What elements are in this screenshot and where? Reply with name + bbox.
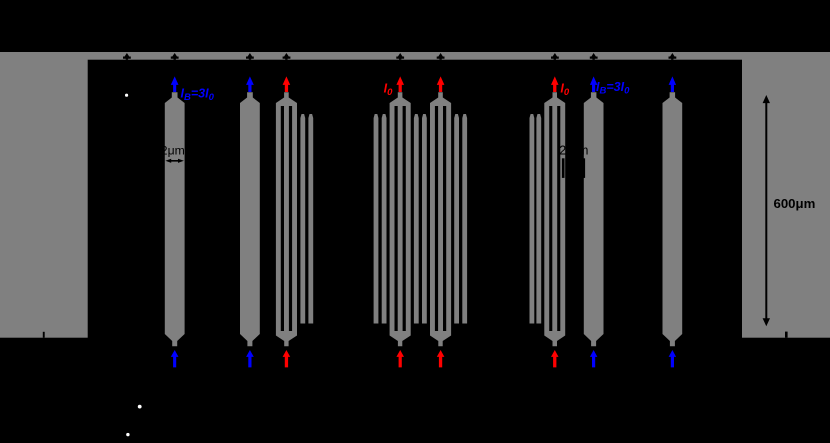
comb electrode E6 finger 1 (544, 106, 549, 331)
current arrow top E2 (blue) (246, 76, 254, 92)
top bus bar (0, 52, 830, 60)
current arrow top E8 (blue) (669, 76, 677, 92)
svg-text:2μm: 2μm (559, 143, 590, 157)
marker dot 3 (126, 433, 129, 436)
floating wire F3 (374, 114, 379, 324)
current arrow bottom E3 (red) (283, 350, 291, 367)
comb electrode E3 finger 2 (284, 106, 289, 331)
comb electrode E4 bottom cap (390, 331, 411, 346)
floating wire F6 (422, 114, 427, 324)
bus feed arrow 3 (246, 53, 254, 60)
current arrow bottom E8 (blue) (669, 350, 677, 367)
current arrow bottom E7 (blue) (590, 350, 598, 367)
svg-text:2μm: 2μm (161, 143, 185, 157)
dimension tick left (E6-E7 gap) (562, 158, 565, 178)
comb electrode E3 finger 3 (292, 106, 297, 331)
right pad bottom tick (785, 332, 788, 338)
floating wire F8 (462, 114, 467, 324)
comb electrode E4 finger 3 (406, 106, 411, 331)
comb electrode E6 finger 3 (560, 106, 565, 331)
comb electrode E5 bottom cap (430, 331, 451, 346)
floating wire F1 (300, 114, 305, 324)
floating wire F7 (454, 114, 459, 324)
dimension tick right (E6-E7 gap) (583, 158, 585, 178)
comb electrode E4 finger 2 (398, 106, 403, 331)
comb electrode E3 bottom cap (276, 331, 297, 346)
comb electrode E4 top cap (390, 92, 411, 106)
bus feed arrow 9 (669, 53, 677, 60)
marker dot 1 (125, 94, 128, 97)
comb electrode E6 top cap (544, 92, 565, 106)
current arrow bottom E2 (blue) (246, 350, 254, 367)
floating wire F9 (530, 114, 535, 324)
comb electrode E5 finger 1 (430, 106, 435, 331)
current arrow bottom E5 (red) (437, 350, 445, 367)
electrode E8 (2um wire) (663, 92, 683, 346)
bus feed arrow 8 (590, 53, 598, 60)
bus feed arrow 7 (551, 53, 559, 60)
current arrow top E7 (blue) (590, 76, 598, 92)
vertical dimension arrow 600um (763, 95, 770, 326)
electrode E1 (2um wire) (165, 92, 185, 346)
current arrow top E4 (red) (396, 76, 404, 92)
comb electrode E6 bottom cap (544, 331, 565, 346)
floating wire F10 (536, 114, 541, 324)
electrode E2 (2um wire) (240, 92, 260, 346)
bus feed arrow 1 (123, 53, 131, 60)
bus feed arrow 5 (396, 53, 404, 60)
floating wire F2 (308, 114, 313, 324)
current arrow top E3 (red) (283, 76, 291, 92)
comb electrode E5 top cap (430, 92, 451, 106)
comb electrode E6 finger 2 (552, 106, 557, 331)
left contact pad (0, 52, 88, 338)
right contact pad (742, 52, 830, 338)
current arrow bottom E1 (blue) (171, 350, 179, 367)
bus feed arrow 2 (171, 53, 179, 60)
bus feed arrow 6 (437, 53, 445, 60)
left pad bottom tick (43, 332, 45, 338)
floating wire F4 (382, 114, 387, 324)
current arrow top E5 (red) (437, 76, 445, 92)
current arrow top E6 (red) (551, 76, 559, 92)
current arrow bottom E4 (red) (396, 350, 404, 367)
floating wire F5 (414, 114, 419, 324)
marker dot 2 (138, 405, 142, 409)
dimension arrow 2um at E1 (165, 159, 184, 163)
comb electrode E4 finger 1 (390, 106, 395, 331)
electrode E7 (2um wire) (584, 92, 604, 346)
comb electrode E3 top cap (276, 92, 297, 106)
comb electrode E5 finger 3 (446, 106, 451, 331)
comb electrode E5 finger 2 (438, 106, 443, 331)
current arrow bottom E6 (red) (551, 350, 559, 367)
current arrow top E1 (blue) (171, 76, 179, 92)
svg-text:600μm: 600μm (774, 196, 816, 211)
comb electrode E3 finger 1 (276, 106, 281, 331)
bus feed arrow 4 (283, 53, 291, 60)
